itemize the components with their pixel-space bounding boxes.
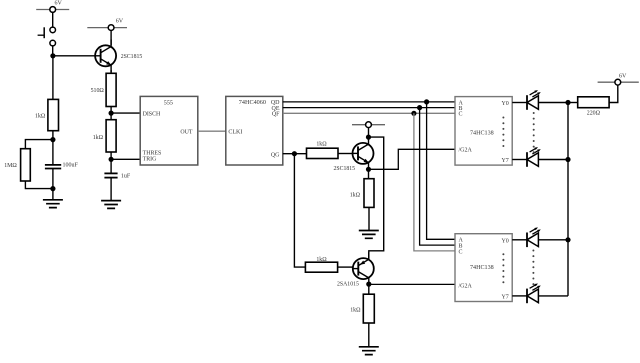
resistor R5 1kΩ bbox=[307, 141, 339, 158]
wire Q2 emitter to R6 bbox=[368, 169, 370, 178]
wire QG down to R7 bbox=[294, 154, 305, 267]
wire LED1 to bus bbox=[538, 102, 568, 104]
wire node A down to R1 bbox=[52, 56, 54, 100]
wire R2 bottom to node C bbox=[25, 181, 53, 189]
ground G3 bbox=[359, 231, 379, 239]
transistor Q3 2SA1015 bbox=[337, 252, 374, 287]
svg-text:Y0: Y0 bbox=[501, 101, 508, 107]
IC U3 74HC138 bbox=[455, 97, 512, 166]
node A junction bbox=[50, 53, 55, 58]
svg-text:Y7: Y7 bbox=[501, 158, 508, 164]
node bus third bbox=[565, 237, 570, 242]
wire V1 to switch bbox=[52, 12, 54, 28]
svg-text:1kΩ: 1kΩ bbox=[35, 114, 46, 120]
wire R7 to Q3 base bbox=[338, 266, 353, 268]
wire node C to ground bbox=[52, 189, 54, 200]
wire QF drop to C2 bbox=[414, 113, 455, 251]
wire LED4 to bus bbox=[538, 295, 568, 297]
svg-text:Y7: Y7 bbox=[501, 294, 508, 300]
wire LED3 to bus bbox=[538, 239, 568, 241]
wire node D to DISCH bbox=[111, 112, 140, 114]
pushbutton switch S1 bbox=[38, 27, 56, 46]
wire QD drop to A2 bbox=[427, 102, 455, 239]
wire R6 to ground bbox=[368, 207, 370, 230]
wire V2 to Q1 collector bbox=[110, 30, 112, 45]
svg-text:2SC1815: 2SC1815 bbox=[121, 54, 143, 60]
ground G4 bbox=[359, 347, 379, 355]
node QE branch bbox=[417, 105, 422, 110]
capacitor C2 1uF bbox=[104, 173, 130, 200]
wire Q2 emitter to G2A pin of U3 bbox=[369, 149, 456, 169]
wire QF bus bbox=[283, 112, 455, 114]
wire QD bus bbox=[283, 101, 455, 103]
svg-text:6V: 6V bbox=[619, 73, 627, 79]
LED D1 bbox=[527, 90, 541, 110]
node Q2 emitter junction bbox=[366, 167, 371, 172]
transistor Q2 2SC1815 bbox=[334, 137, 374, 172]
svg-text:74HC4060: 74HC4060 bbox=[239, 99, 266, 106]
svg-text:1MΩ: 1MΩ bbox=[4, 163, 17, 169]
svg-text:2SA1015: 2SA1015 bbox=[337, 281, 359, 287]
svg-text:DISCH: DISCH bbox=[143, 112, 161, 118]
power terminal 6V V3 bbox=[598, 73, 639, 85]
wire OUT to CLKI bbox=[198, 130, 226, 132]
LED D3 bbox=[527, 227, 541, 247]
svg-text:6V: 6V bbox=[116, 19, 124, 25]
wire Q3 collector to R9 bbox=[368, 284, 370, 294]
resistor R1 1kΩ bbox=[35, 99, 58, 130]
wire QG to R5 bbox=[283, 153, 307, 155]
svg-text:QF: QF bbox=[272, 112, 280, 118]
node bus second bbox=[565, 157, 570, 162]
node QG junction bbox=[292, 151, 297, 156]
svg-text:2SC1815: 2SC1815 bbox=[334, 166, 356, 172]
wire node B to R2 top bbox=[25, 140, 53, 149]
svg-text:QG: QG bbox=[271, 152, 280, 158]
svg-text:6V: 6V bbox=[55, 1, 63, 7]
wire Q3 collector to G2A pin of U4 bbox=[369, 283, 455, 285]
svg-text:OUT: OUT bbox=[180, 129, 193, 135]
capacitor C1 100uF bbox=[45, 140, 79, 189]
wire QE drop to B2 bbox=[420, 108, 455, 246]
wire R8 to V3 bbox=[609, 85, 618, 103]
IC U4 74HC138 bbox=[455, 234, 512, 302]
svg-text:Y0: Y0 bbox=[501, 239, 508, 245]
node C junction bbox=[50, 186, 55, 191]
wire Y0 to LED1 bbox=[512, 102, 527, 104]
node Q2 collector junction bbox=[366, 135, 371, 140]
ground G2 bbox=[101, 201, 121, 209]
wire R3 to R4 bbox=[110, 107, 112, 120]
svg-text:TRIG: TRIG bbox=[143, 156, 157, 162]
wire node A to Q1 base bbox=[53, 55, 96, 57]
svg-text:/G2A: /G2A bbox=[459, 148, 473, 154]
power terminal T1 bbox=[352, 122, 385, 128]
node QD branch bbox=[424, 99, 429, 104]
op-amp U1 555 timer bbox=[140, 96, 198, 165]
wire Y7b to LED4 bbox=[512, 295, 527, 297]
svg-text:1kΩ: 1kΩ bbox=[316, 257, 327, 263]
wire Y0b to LED3 bbox=[512, 239, 527, 241]
svg-text:1kΩ: 1kΩ bbox=[93, 135, 104, 141]
svg-text:1kΩ: 1kΩ bbox=[350, 192, 361, 198]
wire Q2 collector to terminal bbox=[368, 127, 370, 138]
wire R1 to node B bbox=[52, 131, 54, 141]
svg-text:100uF: 100uF bbox=[63, 163, 79, 169]
resistor R6 1kΩ bbox=[350, 179, 374, 208]
LED D2 bbox=[527, 147, 541, 167]
resistor R7 1kΩ bbox=[305, 257, 337, 272]
node Q3 collector junction bbox=[366, 282, 371, 287]
power terminal 6V V1 bbox=[36, 1, 69, 13]
dotted line LEDs bottom bbox=[532, 250, 534, 286]
wire R5 to Q2 base bbox=[338, 153, 353, 155]
dotted line LEDs top bbox=[533, 112, 535, 153]
svg-text:/G2A: /G2A bbox=[459, 284, 473, 290]
node D junction bbox=[109, 111, 114, 116]
resistor R9 1kΩ bbox=[350, 294, 374, 323]
node B junction bbox=[50, 137, 55, 142]
node QF branch bbox=[411, 111, 416, 116]
svg-text:CLKI: CLKI bbox=[228, 130, 242, 136]
power terminal 6V V2 bbox=[87, 19, 127, 31]
svg-text:510Ω: 510Ω bbox=[91, 88, 105, 94]
wire QE bus bbox=[283, 107, 455, 109]
LED D4 bbox=[527, 284, 541, 304]
resistor R8 220Ω bbox=[578, 97, 609, 117]
ground G1 bbox=[43, 200, 63, 208]
wire LED2 to bus bbox=[538, 159, 568, 161]
node bus top bbox=[565, 100, 570, 105]
wire node E to THRES TRIG bbox=[111, 158, 140, 160]
IC U2 74HC4060 bbox=[226, 96, 283, 165]
wire bus to R8 bbox=[568, 102, 578, 104]
transistor Q1 2SC1815 bbox=[95, 40, 142, 73]
svg-text:74HC138: 74HC138 bbox=[470, 265, 494, 271]
wire Q1 emitter to R3 bbox=[110, 70, 112, 73]
svg-text:C: C bbox=[459, 112, 463, 118]
svg-text:1uF: 1uF bbox=[121, 174, 131, 180]
svg-text:74HC138: 74HC138 bbox=[470, 130, 494, 136]
wire Y7 to LED2 bbox=[512, 159, 527, 161]
resistor R2 1MΩ bbox=[4, 149, 30, 181]
wire R9 to ground bbox=[368, 323, 370, 347]
wire switch to node A bbox=[52, 46, 54, 56]
svg-text:C: C bbox=[459, 249, 463, 255]
svg-text:1kΩ: 1kΩ bbox=[350, 307, 361, 313]
svg-text:555: 555 bbox=[164, 100, 173, 106]
wire Q2 collector to Q3 emitter bbox=[369, 137, 384, 258]
wire R4 to node E bbox=[110, 152, 112, 173]
wire anode bus bbox=[567, 103, 569, 296]
svg-text:220Ω: 220Ω bbox=[587, 111, 601, 117]
resistor R3 510Ω bbox=[91, 73, 117, 106]
node E junction bbox=[109, 157, 114, 162]
svg-text:1kΩ: 1kΩ bbox=[316, 141, 327, 147]
resistor R4 1kΩ bbox=[93, 120, 116, 152]
